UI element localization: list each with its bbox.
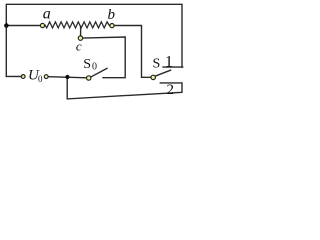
svg-text:S: S [153, 57, 161, 72]
svg-text:c: c [76, 39, 82, 54]
svg-text:2: 2 [167, 82, 175, 98]
svg-text:1: 1 [165, 54, 173, 71]
svg-text:b: b [107, 7, 115, 23]
svg-text:S: S [83, 57, 91, 72]
svg-text:0: 0 [38, 74, 43, 84]
svg-text:0: 0 [92, 61, 97, 72]
svg-text:a: a [43, 5, 51, 22]
